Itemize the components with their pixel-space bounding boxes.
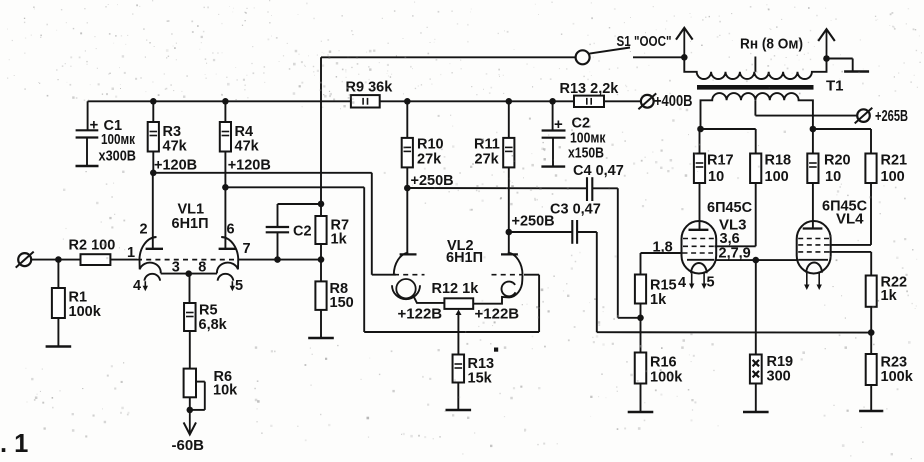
svg-text:С2: С2	[572, 116, 591, 132]
tetrode VL4 envelope	[797, 221, 831, 274]
svg-text:100мк: 100мк	[101, 132, 136, 148]
tetrode VL3 beam plates dashed	[683, 238, 715, 240]
svg-text:10: 10	[825, 169, 841, 185]
triode VL2.2 envelope arc	[508, 253, 523, 275]
node primary left	[697, 126, 704, 133]
svg-text:-60В: -60В	[172, 437, 205, 454]
wire C4 to R15 node	[592, 187, 618, 189]
resistor R4	[224, 101, 226, 122]
triode VL1 grid dashed	[137, 259, 238, 261]
svg-text:+: +	[90, 117, 99, 134]
capacitor C2 (coupling)	[277, 204, 279, 227]
tetrode VL3 screen dashed	[683, 245, 715, 247]
resistor R12	[444, 298, 473, 309]
svg-text:6,8k: 6,8k	[199, 317, 228, 333]
svg-text:4: 4	[678, 275, 686, 291]
transformer T1 secondary	[684, 57, 826, 79]
triode VL1.1 heater arc	[144, 274, 160, 281]
svg-text:2,7,9: 2,7,9	[719, 246, 751, 262]
heater arrow VL3 pin4	[691, 273, 693, 285]
svg-text:+400В: +400В	[654, 93, 693, 110]
svg-text:С3 0,47: С3 0,47	[550, 202, 601, 218]
terminal input	[18, 253, 31, 266]
wire VL3 screen to R18	[715, 245, 756, 247]
ground R13b	[446, 409, 472, 411]
node VL1 cathode junction	[185, 270, 192, 277]
resistor R20	[812, 129, 814, 154]
svg-text:+265В: +265В	[875, 108, 908, 125]
resistor R10	[406, 101, 408, 138]
svg-text:100k: 100k	[881, 369, 914, 385]
svg-text:10k: 10k	[213, 383, 238, 399]
ground R8	[308, 337, 334, 339]
resistor R11	[508, 101, 510, 138]
svg-text:+122В: +122В	[398, 306, 443, 323]
svg-text:4: 4	[133, 278, 141, 294]
wire VL1 left anode to VL2 left grid	[153, 172, 371, 174]
heater arrow VL3 pin5	[703, 273, 705, 285]
heater pin5 arrow VL1	[231, 281, 233, 287]
svg-text:100k: 100k	[650, 370, 683, 386]
node rail junction dots	[150, 98, 157, 105]
tetrode VL4 screen dashed	[798, 244, 829, 246]
svg-text:100: 100	[881, 169, 905, 185]
node R10 bottom	[404, 185, 411, 192]
resistor R21	[870, 129, 872, 154]
svg-text:3: 3	[172, 260, 180, 276]
ground R19	[743, 411, 769, 413]
wire primary-left to R18	[701, 128, 756, 130]
svg-text:R20: R20	[824, 153, 851, 169]
power -60V arrow	[189, 410, 191, 433]
label R13b asterisk	[494, 348, 498, 352]
tetrode VL3 anode	[689, 229, 709, 231]
triode VL1.2 cathode arc	[217, 260, 238, 274]
svg-text:R21: R21	[881, 153, 908, 169]
svg-text:х300В: х300В	[99, 149, 137, 165]
wire OOC feedback	[321, 56, 576, 58]
wire C2 top to R7 top	[278, 203, 322, 205]
svg-text:150: 150	[330, 295, 354, 311]
svg-text:1k: 1k	[331, 232, 348, 248]
triode VL2.1 envelope bottom arc	[392, 285, 420, 299]
svg-text:+120В: +120В	[154, 157, 197, 173]
wire R6 wiper	[196, 381, 205, 383]
svg-text:1: 1	[127, 245, 135, 261]
switch S1	[576, 50, 590, 64]
svg-text:6Н1П: 6Н1П	[172, 216, 209, 232]
node R4 bottom	[222, 184, 229, 191]
svg-text:6Н1П: 6Н1П	[446, 250, 483, 266]
node cathode net junction	[753, 257, 760, 264]
tetrode VL4 heater arch	[806, 263, 822, 273]
triode VL2.2 anode	[508, 232, 510, 254]
wire R11 node to C3	[509, 231, 573, 233]
ground chassis bar right	[844, 70, 869, 72]
svg-text:8: 8	[198, 260, 206, 276]
resistor R8	[320, 260, 322, 282]
resistor R13 (2,2k)	[574, 96, 604, 107]
wire VL1 right anode to VL2 right grid	[225, 186, 364, 188]
svg-text:300: 300	[767, 369, 791, 385]
svg-text:27k: 27k	[475, 152, 500, 168]
svg-text:27k: 27k	[417, 152, 442, 168]
node R15 bottom	[637, 315, 644, 322]
wire VL3 grid 1,8	[640, 253, 642, 275]
svg-text:R13 2,2k: R13 2,2k	[560, 81, 620, 97]
tetrode VL3 grid dashed	[683, 252, 714, 254]
wire VL1 pin7 to R7/R8	[238, 259, 322, 261]
ground R1	[46, 345, 72, 347]
resistor R22	[866, 276, 877, 307]
svg-text:Т1: Т1	[826, 78, 844, 95]
svg-text:х150В: х150В	[568, 146, 604, 162]
ground C2 chassis bar	[541, 165, 565, 167]
node primary right	[810, 126, 817, 133]
svg-text:1,8: 1,8	[653, 240, 673, 256]
triode VL1.1 anode	[152, 173, 154, 249]
resistor R3	[152, 101, 154, 122]
tetrode VL3 cathode line	[687, 259, 714, 261]
node R7 bottom	[318, 256, 325, 263]
svg-text:R18: R18	[765, 153, 792, 169]
heater arrow VL4 right	[818, 273, 820, 286]
svg-text:Rн (8 Ом): Rн (8 Ом)	[740, 36, 803, 53]
triode VL1.2 anode	[224, 187, 226, 249]
svg-text:100: 100	[765, 169, 789, 185]
ground R23	[859, 410, 883, 412]
svg-text:С2: С2	[293, 224, 312, 240]
heater pin4 arrow VL1	[144, 281, 146, 287]
svg-text:15k: 15k	[468, 371, 493, 387]
svg-text:47k: 47k	[235, 139, 260, 155]
wire input to R2	[31, 259, 80, 261]
wire secondary right to chassis	[827, 58, 853, 60]
svg-text:6: 6	[227, 222, 235, 238]
svg-text:+122В: +122В	[475, 306, 520, 323]
wire VL4 screen to R21	[829, 244, 871, 246]
speaker arrow left	[683, 29, 685, 58]
triode VL2.2 envelope corner	[473, 275, 522, 304]
node secondary left	[681, 54, 688, 61]
capacitor C1	[87, 101, 89, 130]
resistor R17	[699, 129, 701, 154]
ground R16	[628, 411, 654, 413]
resistor R2	[81, 254, 111, 265]
svg-text:47k: 47k	[163, 139, 188, 155]
resistor R13 (15k)	[453, 355, 465, 383]
triode VL2.1 cathode	[396, 279, 415, 298]
transformer T1 primary center tap	[754, 100, 756, 115]
svg-text:6П45С: 6П45С	[707, 200, 753, 216]
resistor R15	[635, 275, 646, 304]
svg-text:R2 100: R2 100	[69, 238, 116, 254]
svg-text:+120В: +120В	[228, 157, 271, 173]
speaker arrow right	[826, 30, 828, 58]
triode VL1.2 heater arc	[218, 274, 234, 281]
capacitor C3	[571, 220, 573, 244]
transformer T1 secondary center tap	[754, 57, 756, 72]
rheostat R6	[184, 369, 196, 398]
wire VL1 cathodes	[161, 273, 217, 275]
svg-text:VL4: VL4	[836, 211, 864, 228]
svg-text:R17: R17	[707, 153, 734, 169]
resistor R19	[755, 260, 757, 354]
svg-text:+250В: +250В	[411, 173, 454, 189]
tetrode VL4 beam plates dashed	[798, 238, 829, 240]
transformer T1 primary	[701, 93, 813, 129]
transformer T1 core	[697, 85, 814, 90]
svg-text:R16: R16	[650, 355, 677, 371]
svg-text:2: 2	[140, 222, 148, 238]
svg-text:R10: R10	[417, 137, 444, 153]
triode VL2.1 anode	[406, 188, 408, 254]
resistor R1	[57, 260, 59, 288]
node R11 bottom	[506, 229, 513, 236]
wire VL4 grid to R22	[829, 251, 871, 253]
wire +400V rail	[88, 100, 351, 102]
wire VL3 cathode 2,7,9 net	[715, 259, 797, 261]
svg-text:7: 7	[243, 241, 251, 257]
svg-text:R11: R11	[474, 137, 500, 153]
triode VL2.1 envelope arc	[394, 253, 408, 275]
svg-text:+: +	[554, 116, 563, 133]
resistor R7	[315, 216, 326, 244]
ground C1 chassis bar	[76, 165, 99, 167]
triode VL2.1 grid dashed	[394, 274, 425, 276]
svg-text:100мк: 100мк	[570, 131, 606, 147]
node secondary right	[823, 55, 830, 62]
wiper R12 arrow	[456, 310, 462, 316]
resistor R9	[351, 95, 380, 107]
svg-text:1k: 1k	[881, 288, 898, 304]
triode VL1.1 cathode arc	[140, 260, 161, 274]
resistor R16	[640, 318, 642, 353]
wire C3 to VL4 grid bus	[577, 231, 597, 233]
svg-text:R9 36k: R9 36k	[346, 80, 394, 96]
svg-text:+250В: +250В	[512, 214, 555, 230]
svg-text:10: 10	[708, 169, 724, 185]
resistor R23	[870, 333, 872, 354]
triode VL2.2 grid dashed	[492, 274, 523, 276]
node R6 bottom	[187, 407, 194, 414]
tetrode VL4 anode	[803, 227, 823, 229]
triode VL2.2 cathode arc	[502, 282, 516, 297]
capacitor C4	[586, 177, 588, 201]
svg-text:5: 5	[707, 275, 715, 291]
triode VL1.2 envelope arc	[221, 237, 238, 261]
tetrode VL4 grid dashed	[798, 251, 829, 253]
resistor R5	[189, 275, 191, 303]
wire R10 to C4	[407, 187, 587, 189]
svg-text:R12 1k: R12 1k	[432, 281, 480, 297]
svg-text:S1 "ООС": S1 "ООС"	[617, 34, 672, 50]
tetrode VL4 cathode line	[798, 259, 828, 261]
terminal +400V	[641, 95, 654, 108]
svg-text:. 1: . 1	[0, 430, 28, 458]
svg-text:С4 0,47: С4 0,47	[573, 163, 624, 179]
wire primary-right to R21	[813, 128, 871, 130]
svg-text:5: 5	[235, 278, 243, 294]
node R22 bottom	[868, 329, 875, 336]
node C2 bottom	[274, 256, 281, 263]
capacitor C2 (electrolytic)	[552, 101, 554, 130]
tetrode VL3 envelope	[682, 221, 717, 274]
triode VL1.1 envelope arc	[139, 237, 156, 261]
wire VL2.1 cathode to R12	[413, 296, 444, 303]
svg-text:1k: 1k	[650, 292, 667, 308]
resistor R18	[755, 129, 757, 154]
node input junction	[55, 256, 62, 263]
heater arrow VL4 left	[806, 273, 808, 286]
wire R2 to VL1 grid	[110, 259, 137, 261]
node R7 top	[318, 201, 325, 208]
svg-text:100k: 100k	[69, 304, 102, 320]
tetrode VL3 heater arch	[691, 263, 707, 273]
terminal +265V	[857, 109, 870, 122]
node R3 bottom	[150, 170, 157, 177]
